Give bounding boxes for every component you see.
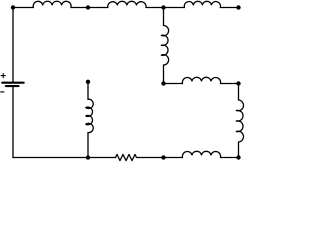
inductor L5 (right edge, vertical) bbox=[236, 100, 243, 142]
left wire (battery branch) upper bbox=[12, 8, 14, 82]
inductor L7 (middle horizontal) bbox=[182, 77, 220, 83]
left wire lower bbox=[12, 87, 14, 157]
inductor L8 (dangling vertical) bbox=[86, 99, 93, 132]
dangling branch terminal wire bbox=[87, 82, 89, 99]
junction dot node top-left bbox=[11, 5, 15, 9]
junction dot node mid-right bbox=[236, 81, 240, 85]
middle horizontal wire bbox=[164, 83, 183, 85]
circuit schematic: battery driving ladder network of inductors and a resistor bbox=[0, 0, 246, 163]
junction dot node top b bbox=[161, 5, 165, 9]
dangling branch lower wire bbox=[87, 133, 89, 158]
junction dot node bottom a bbox=[86, 155, 90, 159]
junction dot node mid-left bbox=[161, 81, 165, 85]
right wire lower bbox=[238, 142, 240, 158]
junction dot node bottom-right bbox=[236, 155, 240, 159]
wire L2 to L3 bbox=[146, 7, 184, 9]
bottom wire left segment bbox=[13, 157, 116, 159]
inductor L2 (top-middle) bbox=[108, 1, 146, 7]
middle branch wire to corner node bbox=[163, 65, 165, 84]
battery plus sign bbox=[1, 74, 5, 78]
inductor L3 (top-right) bbox=[184, 1, 220, 7]
wire L3 to top-right corner bbox=[220, 7, 238, 9]
wire bottom coil to bottom-right corner bbox=[221, 157, 239, 159]
right wire from mid node to coil bbox=[238, 84, 240, 101]
wire resistor to bottom coil bbox=[137, 157, 183, 159]
wire top-left to L1 bbox=[13, 7, 33, 9]
battery V1 plate long (+) bbox=[2, 82, 24, 84]
inductor L6 (bottom) bbox=[182, 151, 220, 157]
junction dot terminal dangling bbox=[86, 80, 90, 84]
junction dot node top a bbox=[86, 5, 90, 9]
inductor L4 (middle vertical) bbox=[161, 26, 168, 66]
wire L1 to L2 bbox=[71, 7, 108, 9]
middle-right branch vertical wire upper bbox=[163, 8, 165, 26]
resistor R1 (bottom) bbox=[116, 154, 137, 160]
wire middle coil to right wire bbox=[221, 83, 239, 85]
junction dot node top-right bbox=[236, 5, 240, 9]
battery V1 plate short (-) bbox=[6, 85, 19, 87]
battery minus sign bbox=[1, 91, 4, 93]
inductor L1 (top-left) bbox=[33, 1, 71, 7]
junction dot node bottom b bbox=[161, 155, 165, 159]
